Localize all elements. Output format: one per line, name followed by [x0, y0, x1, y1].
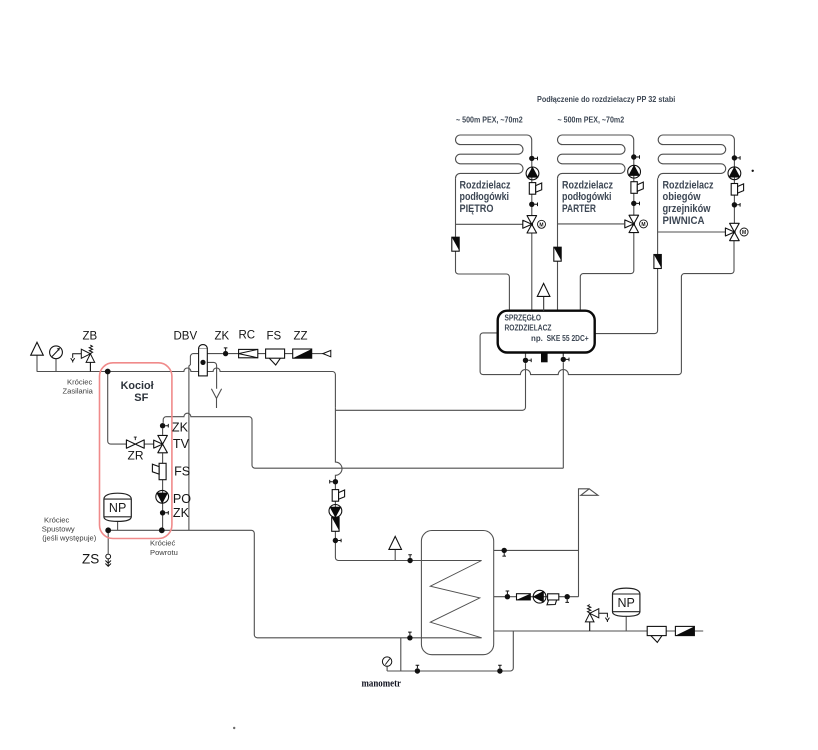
- svg-text:grzejników: grzejników: [663, 203, 711, 215]
- svg-text:manometr: manometr: [362, 679, 402, 690]
- svg-text:PO: PO: [173, 492, 191, 506]
- svg-text:Rozdzielacz: Rozdzielacz: [460, 179, 511, 191]
- svg-text:Kocioł: Kocioł: [121, 380, 154, 392]
- svg-text:PARTER: PARTER: [562, 203, 596, 215]
- svg-text:FS: FS: [267, 331, 282, 343]
- svg-text:ZR: ZR: [128, 448, 144, 462]
- svg-text:TV: TV: [173, 437, 190, 451]
- svg-text:PIWNICA: PIWNICA: [663, 215, 705, 227]
- svg-text:SPRZĘGŁO: SPRZĘGŁO: [505, 314, 542, 323]
- svg-text:Zasilania: Zasilania: [63, 387, 94, 396]
- svg-text:PIĘTRO: PIĘTRO: [460, 203, 494, 215]
- svg-text:~ 500m PEX, ~70m2: ~ 500m PEX, ~70m2: [558, 115, 625, 124]
- svg-text:SKE 55 2DC+: SKE 55 2DC+: [547, 334, 589, 343]
- svg-text:Spustowy: Spustowy: [42, 525, 75, 534]
- svg-text:Króciec: Króciec: [44, 516, 70, 525]
- svg-text:Rozdzielacz: Rozdzielacz: [562, 179, 613, 191]
- svg-text:ZB: ZB: [83, 331, 98, 343]
- svg-text:RC: RC: [239, 329, 256, 341]
- svg-text:ROZDZIELACZ: ROZDZIELACZ: [505, 324, 552, 333]
- svg-text:Podłączenie do rozdzielaczy PP: Podłączenie do rozdzielaczy PP 32 stabi: [537, 94, 675, 104]
- svg-text:ZZ: ZZ: [294, 331, 308, 343]
- svg-text:(jeśli występuje): (jeśli występuje): [42, 534, 96, 543]
- svg-text:podłogówki: podłogówki: [562, 191, 612, 203]
- svg-text:Rozdzielacz: Rozdzielacz: [663, 179, 714, 191]
- svg-text:Powrotu: Powrotu: [150, 548, 178, 557]
- svg-text:ZK: ZK: [215, 331, 230, 343]
- svg-text:SF: SF: [134, 392, 148, 404]
- svg-text:obiegów: obiegów: [663, 191, 701, 203]
- svg-text:np.: np.: [531, 334, 543, 343]
- svg-text:podłogówki: podłogówki: [460, 191, 510, 203]
- svg-text:Króciec: Króciec: [67, 378, 93, 387]
- svg-text:ZS: ZS: [82, 552, 99, 567]
- svg-text:ZK: ZK: [172, 420, 189, 434]
- svg-text:ZK: ZK: [173, 506, 190, 520]
- svg-text:Krócieć: Krócieć: [150, 539, 176, 548]
- svg-text:FS: FS: [174, 464, 190, 478]
- svg-text:~ 500m PEX, ~70m2: ~ 500m PEX, ~70m2: [456, 115, 523, 124]
- svg-text:DBV: DBV: [174, 331, 198, 343]
